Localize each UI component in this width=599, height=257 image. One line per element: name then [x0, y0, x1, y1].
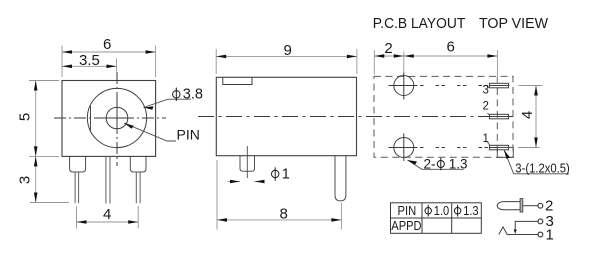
pcb top hole [394, 76, 414, 96]
schematic barrel bar [520, 199, 523, 212]
svg-text:APPD: APPD [391, 218, 421, 233]
side view body outline [216, 77, 356, 155]
side/pcb horizontal centerline [198, 116, 513, 118]
schematic pin2 terminal [538, 203, 543, 208]
svg-text:4: 4 [519, 111, 536, 119]
leader PIN [124, 123, 176, 141]
table text phi1.3 [454, 205, 460, 217]
front right pin shoulder [130, 156, 146, 172]
front left pin shoulder [70, 156, 86, 172]
svg-text:2: 2 [483, 101, 489, 113]
pcb outline dashed rect [374, 76, 513, 157]
pcb slot midline segments [489, 86, 509, 148]
pcb internal dashed line [496, 76, 498, 157]
side view long pin [335, 156, 346, 201]
front view center pin circle [106, 107, 128, 129]
svg-text:PIN: PIN [177, 127, 200, 143]
svg-text:2: 2 [384, 40, 392, 57]
front view vertical centerline [116, 72, 118, 102]
dimension 9 (side top) [216, 49, 357, 74]
front middle pin leg [106, 156, 110, 203]
side view phi1 pin [240, 156, 255, 172]
schematic pin1 terminal [538, 232, 543, 237]
pcb slot 3 [489, 83, 508, 88]
side view phi1 pin centerline [246, 146, 248, 178]
svg-text:3.8: 3.8 [183, 87, 203, 103]
svg-text:3: 3 [16, 176, 33, 184]
pcb pin1 lug [497, 147, 513, 157]
pcb top centerline [389, 85, 418, 87]
schematic pin3 contact tip [514, 229, 517, 234]
dimension 4 (front bottom) [77, 206, 139, 229]
dimension 3.5 (front top) [62, 59, 117, 72]
svg-text:1.3: 1.3 [463, 204, 478, 218]
pcb bottom hole vertical crosshair [403, 134, 405, 162]
front view contact chord [90, 106, 92, 131]
svg-text:PIN: PIN [398, 203, 417, 218]
svg-text:3.5: 3.5 [79, 52, 100, 69]
schematic pin3 wire [515, 221, 538, 231]
dimension 4 (pcb right) [518, 86, 543, 148]
svg-text:4: 4 [103, 206, 111, 223]
svg-text:1.0: 1.0 [434, 204, 449, 218]
svg-text:P.C.B LAYOUT: P.C.B LAYOUT [373, 16, 466, 32]
pcb top hole vertical crosshair [403, 72, 405, 100]
dimension 6 (pcb top) [404, 50, 498, 83]
leader phi3.8 [144, 99, 192, 107]
svg-text:3: 3 [483, 85, 489, 97]
front view barrel hole circle [87, 88, 146, 147]
svg-text:3-(1.2x0.5): 3-(1.2x0.5) [515, 161, 570, 176]
dimension 6 (front top) [62, 46, 156, 78]
svg-text:TOP VIEW: TOP VIEW [479, 16, 548, 32]
pcb slot 1 [489, 145, 508, 150]
dimension 5 (front left) [29, 81, 59, 157]
label 2-phi1.3 [408, 160, 464, 169]
schematic pin1 spring and wire [499, 227, 538, 235]
svg-text:1: 1 [546, 226, 554, 243]
svg-text:9: 9 [284, 42, 292, 59]
svg-text:5: 5 [17, 113, 34, 121]
pcb bottom hole [394, 138, 414, 158]
svg-text:6: 6 [103, 36, 111, 53]
spec table [391, 203, 482, 234]
front view body outline [62, 81, 156, 157]
dimension 8 (side bottom) [217, 160, 341, 230]
svg-text:1: 1 [282, 167, 290, 183]
svg-text:6: 6 [447, 39, 455, 56]
dimension 2 (pcb top) [374, 50, 404, 75]
label 3-(1.2x0.5) [504, 150, 569, 174]
schematic pin3 terminal [538, 219, 543, 224]
table text phi1.0 [425, 205, 431, 217]
pcb slot 2 [489, 114, 508, 119]
front left pin leg [75, 172, 79, 203]
side view notch [223, 77, 252, 84]
svg-text:1.3: 1.3 [449, 156, 468, 171]
svg-text:8: 8 [280, 206, 288, 223]
dimension 3 (front left) [30, 156, 69, 202]
svg-text:2: 2 [545, 197, 553, 214]
schematic pin2 wire [523, 205, 538, 207]
front right pin leg [136, 172, 140, 203]
dimension phi1 (side pin) [227, 181, 264, 183]
schematic barrel pin2 [497, 202, 520, 210]
front view horizontal centerline [54, 117, 100, 119]
pcb bottom centerline [389, 147, 418, 149]
svg-text:2-: 2- [424, 156, 436, 171]
